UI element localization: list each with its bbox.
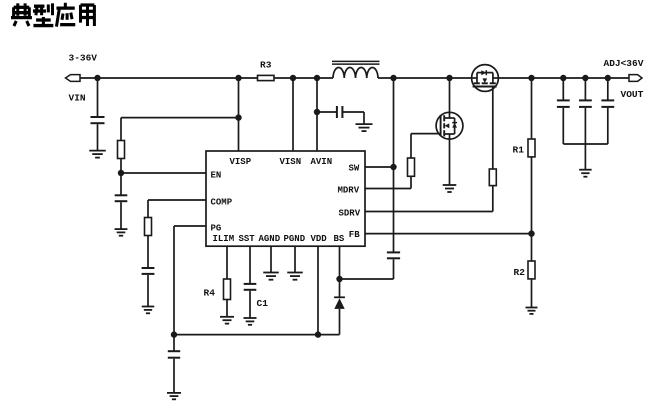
junction EN node (118, 170, 124, 176)
pin label AVIN (311, 157, 333, 167)
svg-text:AVIN: AVIN (311, 157, 333, 167)
pin label FB (349, 230, 360, 240)
svg-text:R1: R1 (513, 145, 525, 156)
wire BS pin (339, 246, 341, 279)
wire AVIN vertical (316, 78, 318, 151)
wire output cap 3 bottom (607, 108, 609, 144)
wire diode to bus (339, 309, 341, 335)
junction AVIN top (314, 75, 320, 81)
junction SW pin node (390, 164, 396, 170)
svg-text:ILIM: ILIM (213, 234, 235, 244)
pin label PG (211, 224, 222, 234)
wire Q1 gate down (492, 87, 494, 170)
junction VISN top (290, 75, 296, 81)
wire MDRV vertical (410, 176, 412, 188)
svg-text:3-36V: 3-36V (69, 53, 98, 64)
diode bootstrap D1 (334, 297, 345, 309)
pin label SST (239, 234, 256, 244)
wire bus cap to ground (173, 359, 175, 393)
wire SW vertical (393, 78, 395, 252)
wire Q2 drain (449, 78, 451, 112)
wire bottom bus (174, 334, 340, 336)
wire R4 to ground (226, 300, 228, 317)
ground output caps (579, 170, 592, 177)
svg-text:EN: EN (211, 171, 222, 181)
wire Q2 gate (411, 133, 441, 135)
pin label VISN (280, 157, 302, 167)
resistor R2 (528, 261, 535, 279)
op-amp U1 controller IC body (206, 151, 365, 246)
junction input cap node (94, 75, 100, 81)
resistor R4 (224, 279, 231, 300)
svg-text:BS: BS (334, 234, 345, 244)
label R4 (204, 287, 216, 298)
wire PGND pin (294, 246, 296, 272)
pin label SW (349, 164, 360, 174)
resistor EN divider upper (118, 141, 125, 159)
wire EN cap stem (120, 173, 122, 195)
svg-text:C1: C1 (257, 298, 269, 309)
wire AVIN cap left (317, 111, 337, 113)
pin label SDRV (339, 209, 361, 219)
wire EN cap to ground (120, 202, 122, 229)
wire output cap 1 bottom (562, 108, 564, 144)
inductor L1 core lines (332, 61, 380, 64)
label R2 (514, 267, 526, 278)
svg-text:VISP: VISP (230, 157, 252, 167)
wire MDRV pin (365, 188, 411, 190)
junction Q2 drain node (446, 75, 452, 81)
wire AVIN cap right (343, 112, 364, 124)
resistor Q2 gate drive (408, 158, 415, 176)
pin label VISP (230, 157, 252, 167)
svg-text:SW: SW (349, 164, 360, 174)
wire output ground stem (584, 144, 586, 169)
wire SW pin (365, 166, 394, 168)
svg-text:VDD: VDD (311, 234, 328, 244)
wire rail inductor to Q1 (378, 77, 472, 79)
wire FB pin (365, 233, 532, 235)
wire input cap stem top (97, 78, 99, 117)
ground PGND (287, 273, 303, 280)
capacitor COMP (142, 268, 155, 274)
junction output cap 2 top (582, 75, 588, 81)
junction output cap 3 top (605, 75, 611, 81)
ground C1 (244, 318, 257, 325)
transistor Q1 high-side MOSFET (472, 65, 499, 92)
wire AGND pin (270, 246, 272, 272)
junction AVIN cap tap (314, 109, 320, 115)
wire VISN vertical (292, 78, 294, 151)
junction FB node (528, 230, 534, 236)
ground bottom cap (167, 393, 181, 399)
capacitor input bypass (91, 117, 105, 123)
wire SDRV pin (365, 211, 493, 213)
label 3-36V (69, 53, 98, 64)
wire C1 to ground (249, 291, 251, 318)
capacitor output 2 (579, 100, 592, 107)
wire Q2 gate to resistor (410, 134, 412, 158)
svg-text:VOUT: VOUT (621, 89, 644, 100)
ground AGND (263, 273, 279, 280)
wire PG pin (174, 225, 206, 227)
ground Q2 source (443, 185, 457, 192)
wire output cap 2 bottom (584, 108, 586, 144)
wire output cap 3 stem (607, 78, 609, 100)
label R3 (260, 60, 272, 71)
title text 典型应用 (11, 3, 94, 27)
ground R4 (220, 317, 234, 324)
junction VISP top (235, 75, 241, 81)
junction PG bus node (171, 331, 177, 337)
junction VISP EN tap (235, 114, 241, 120)
ground input cap (89, 151, 106, 158)
capacitor EN filter (115, 195, 128, 201)
resistor R1 (528, 139, 535, 157)
junction output cap 1 top (560, 75, 566, 81)
wire EN divider horizontal (121, 117, 239, 119)
pin label EN (211, 171, 222, 181)
wire COMP pin (148, 199, 206, 201)
wire R1 to FB (531, 157, 533, 234)
wire Q2 source to ground (449, 139, 451, 185)
resistor COMP (145, 218, 152, 236)
capacitor bootstrap (387, 252, 400, 258)
capacitor bottom VDD (168, 351, 180, 358)
pin label ILIM (213, 234, 235, 244)
pin label PGND (284, 234, 306, 244)
wire ILIM pin (226, 246, 228, 279)
capacitor AVIN decoupling (337, 106, 343, 118)
label VOUT (621, 89, 644, 100)
wire rail R3 to AVIN node (274, 77, 333, 79)
input terminal VIN (66, 75, 81, 82)
wire VDD pin (317, 246, 319, 334)
wire output cap 1 stem (562, 78, 564, 100)
wire output cap 2 stem (584, 78, 586, 100)
svg-text:ADJ<36V: ADJ<36V (604, 58, 644, 69)
label VIN (69, 93, 86, 104)
transistor Q2 low-side MOSFET (436, 112, 463, 139)
wire input cap stem bottom (97, 124, 99, 150)
wire COMP res to cap (147, 236, 149, 268)
svg-text:R2: R2 (514, 267, 526, 278)
svg-text:SST: SST (239, 234, 256, 244)
ground R2 (526, 308, 538, 314)
svg-text:VIN: VIN (69, 93, 86, 104)
wire COMP down (147, 200, 149, 218)
pin label COMP (211, 197, 233, 207)
svg-text:VISN: VISN (280, 157, 302, 167)
svg-text:R4: R4 (204, 287, 216, 298)
svg-text:AGND: AGND (259, 234, 281, 244)
wire PG down (173, 226, 175, 335)
wire SST pin (249, 246, 251, 284)
wire VIN rail segment 1 (80, 77, 258, 79)
wire output cap bus (563, 143, 608, 145)
pin label MDRV (338, 186, 360, 196)
wire COMP cap to ground (147, 275, 149, 306)
wire bus cap stem (173, 335, 175, 351)
resistor Q1 gate drive (489, 169, 496, 186)
pin label BS (334, 234, 345, 244)
ground COMP (142, 307, 155, 314)
capacitor output 3 (601, 100, 614, 107)
pin label AGND (259, 234, 281, 244)
wire VOUT rail (498, 77, 630, 79)
svg-text:PG: PG (211, 224, 222, 234)
capacitor output 1 (557, 100, 570, 107)
ground EN cap (115, 229, 128, 236)
wire R1 top (531, 78, 533, 139)
inductor L1 (333, 67, 378, 78)
junction R1 top (528, 75, 534, 81)
capacitor C1 (244, 284, 257, 290)
wire EN res to node (120, 159, 122, 174)
svg-text:R3: R3 (260, 60, 272, 71)
wire bootstrap cap to BS (340, 259, 394, 279)
svg-text:MDRV: MDRV (338, 186, 360, 196)
wire FB to R2 (531, 234, 533, 261)
ground AVIN cap (356, 124, 373, 131)
wire R2 to ground (531, 279, 533, 307)
svg-text:COMP: COMP (211, 197, 233, 207)
wire SDRV vertical (492, 186, 494, 212)
junction VDD bus node (315, 331, 321, 337)
svg-text:SDRV: SDRV (339, 209, 361, 219)
wire EN divider down (120, 118, 122, 141)
pin label VDD (311, 234, 328, 244)
junction BS node (336, 276, 342, 282)
wire EN to pin (121, 172, 206, 174)
wire VISP vertical (238, 78, 240, 151)
junction SW top (390, 75, 396, 81)
svg-text:PGND: PGND (284, 234, 306, 244)
svg-text:FB: FB (349, 230, 360, 240)
label R1 (513, 145, 525, 156)
output terminal VOUT (629, 75, 642, 82)
label ADJ<36V (604, 58, 644, 69)
wire BS to diode (339, 279, 341, 297)
label C1 (257, 298, 269, 309)
resistor R3 (258, 75, 275, 80)
